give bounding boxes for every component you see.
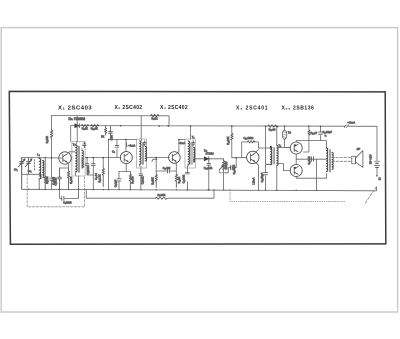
- VR wiper arrow: [219, 165, 223, 169]
- switch S contact dot: [376, 175, 378, 177]
- capacitor C16 10uF (rail bypass, x=320.6): [320, 126, 322, 140]
- svg-text:R₂10K: R₂10K: [45, 176, 49, 184]
- emitter wire X4 down to bus: [255, 162, 259, 190]
- svg-text:C₀.04: C₀.04: [94, 173, 98, 180]
- svg-text:R₇10K: R₇10K: [158, 193, 166, 197]
- capacitor C5b (x=93.3): [92, 158, 94, 190]
- T1 secondary to X2 base wire: [82, 149, 121, 169]
- dashed shield box (converter section): [27, 174, 84, 207]
- detector output wire: [209, 158, 224, 160]
- svg-text:C₅0.05: C₅0.05: [86, 166, 90, 174]
- svg-text:Th: Th: [288, 131, 292, 135]
- svg-text:≈9mA: ≈9mA: [348, 121, 356, 125]
- svg-text:C₁₀100: C₁₀100: [163, 167, 171, 170]
- T2 feed from line A: [140, 116, 142, 141]
- detector wire from T3 secondary: [194, 159, 205, 162]
- svg-text:C₁₅50μF: C₁₅50μF: [260, 172, 264, 182]
- transistor X5: [290, 142, 302, 154]
- svg-text:R₁10K: R₁10K: [46, 136, 49, 143]
- svg-text:C₁₁0.02: C₁₁0.02: [181, 174, 185, 183]
- junction dots on bus: [28, 189, 318, 192]
- current break ticks + mA label: [344, 125, 348, 128]
- svg-text:X₁ 2SC403: X₁ 2SC403: [58, 105, 92, 111]
- T1 core lines: [79, 146, 80, 173]
- collector wire X4 to T4: [255, 148, 271, 153]
- svg-text:C₁₇0.02: C₁₇0.02: [308, 156, 311, 165]
- X5 collector to OPT top: [296, 141, 326, 148]
- dotted line bottom middle: [230, 190, 345, 202]
- T5 core lines: [329, 150, 330, 173]
- T3 secondary coil: [194, 148, 195, 162]
- T4 secondary (on long vertical): [276, 126, 278, 190]
- emitter wire X1: [60, 162, 69, 168]
- junction dot: [78, 189, 80, 191]
- volume control VR 10K: [223, 159, 225, 160]
- X6 collector to OPT bottom: [296, 174, 326, 179]
- svg-text:R₈2K: R₈2K: [152, 117, 158, 121]
- svg-text:R₃100: R₃100: [69, 176, 73, 184]
- svg-text:X₅₆ 2SB136: X₅₆ 2SB136: [282, 105, 315, 111]
- capacitor C3 2000 bars: [62, 196, 64, 200]
- switch S lever: [365, 187, 377, 204]
- resistor R7 10K (series on AVC line): [156, 197, 168, 199]
- transistor X3: [169, 152, 181, 164]
- driver transformer T4 primary: [270, 147, 271, 165]
- T4 secondary taps to push-pull bases: [277, 148, 291, 171]
- resistor R4 1.5K (x=103.2): [102, 158, 104, 168]
- AVC line (lower): [86, 190, 214, 199]
- T5 secondary: [332, 153, 333, 170]
- collector lead X2: [125, 139, 127, 151]
- svg-text:C₃2000: C₃2000: [63, 201, 72, 204]
- AGC arrow on base wire: [152, 159, 157, 161]
- capacitor C8 1uF (x=119): [118, 172, 120, 190]
- svg-text:R₉1K: R₉1K: [82, 126, 88, 130]
- svg-text:X₄ 2SC401: X₄ 2SC401: [236, 105, 268, 111]
- diode D1: [75, 124, 80, 128]
- feedback resistor R14 400 (loop above X4): [242, 142, 259, 158]
- svg-text:1T23M: 1T23M: [206, 152, 214, 156]
- main rail line B: [71, 126, 377, 161]
- tuning common wire: [22, 174, 41, 189]
- transistor X4: [247, 151, 259, 163]
- resistor R11 (vertical under rail B at x=105.5): [105, 126, 107, 135]
- svg-text:T₃: T₃: [192, 135, 195, 139]
- AGC drop wire from line B: [70, 126, 72, 142]
- svg-text:X₂ 2SC402: X₂ 2SC402: [115, 105, 143, 111]
- svg-text:R₆10K: R₆10K: [150, 177, 154, 185]
- T2 secondary coil: [145, 147, 146, 161]
- T3 primary coil: [188, 141, 189, 164]
- svg-text:C₅0.05: C₅0.05: [54, 177, 58, 185]
- emitter join wire X5/X6: [295, 154, 297, 165]
- capacitor C5a (AGC filter, x=87.1): [87, 158, 93, 175]
- T2 resonating capacitor: [143, 141, 146, 146]
- T2 shield box: [137, 139, 147, 168]
- capacitor C9 0.02 (T2 bottom, x=140.9): [139, 174, 143, 184]
- svg-text:10K(B): 10K(B): [224, 162, 228, 170]
- svg-text:SP: SP: [357, 147, 361, 151]
- emitter bypass capacitor C10 100: [156, 170, 176, 172]
- svg-text:BP 4.5V: BP 4.5V: [369, 154, 373, 164]
- svg-text:5K: 5K: [101, 135, 104, 139]
- T3 core lines: [191, 143, 192, 165]
- svg-text:C₈1μF: C₈1μF: [113, 179, 117, 187]
- svg-text:Cᵛ₁: Cᵛ₁: [14, 167, 18, 171]
- svg-text:T₁: T₁: [73, 144, 76, 147]
- bias resistor R1 10K (vertical x=51.1): [51, 116, 53, 130]
- T1 secondary coil: [82, 151, 83, 169]
- svg-text:R₅470: R₅470: [131, 176, 135, 184]
- T4 primary bottom wire: [266, 163, 271, 165]
- wires T5 secondary to speaker: [332, 158, 352, 162]
- T1 primary coil: [76, 145, 78, 172]
- svg-text:1.5mA: 1.5mA: [252, 177, 255, 185]
- figure border box: [9, 91, 386, 244]
- collector lead X3: [177, 140, 185, 154]
- top base wire: [22, 157, 59, 160]
- base lead X1: [59, 157, 63, 159]
- collector wire X1 to T1: [68, 152, 75, 154]
- svg-text:T₅: T₅: [324, 135, 326, 137]
- T3 feed from rail B: [190, 126, 192, 139]
- svg-text:C₁₆10μF: C₁₆10μF: [322, 130, 332, 134]
- T3 resonating capacitor: [192, 141, 195, 146]
- bias resistor R16 (x=308.9): [308, 126, 310, 129]
- svg-text:C₆: C₆: [112, 149, 115, 153]
- svg-text:≈1mA: ≈1mA: [179, 141, 186, 145]
- transistor X2: [120, 152, 132, 164]
- T1 resonating capacitor: [83, 142, 86, 148]
- antenna coil L1 secondary: [43, 161, 44, 178]
- tuning: left vertical wire: [21, 158, 23, 190]
- decoupling capacitor C15 50uF (x=265.6): [266, 126, 271, 190]
- thermistor Th: [285, 126, 291, 147]
- T1 primary bottom to bus: [76, 172, 79, 190]
- svg-text:R₁₂50: R₁₂50: [177, 176, 181, 183]
- collector feed wire X2: [109, 138, 137, 140]
- tone capacitor C17 0.02 (across primary): [311, 157, 313, 162]
- resistor R8 2K (series on line A): [151, 114, 159, 117]
- emitter network X2: [119, 164, 130, 172]
- svg-text:≈1mA: ≈1mA: [129, 144, 136, 148]
- capacitor C4 0.04 (emitter bypass, x=59.5): [58, 168, 62, 189]
- svg-text:X₃ 2SC402: X₃ 2SC402: [160, 105, 188, 111]
- T3 primary bottom bypass capacitor C11 0.02: [186, 165, 189, 190]
- neutralizing capacitor C6 0.05 (x=117): [116, 139, 118, 157]
- wire L1 top to base wire: [38, 158, 40, 190]
- svg-text:C₉0.02: C₉0.02: [141, 176, 145, 184]
- output transformer T5 primary: [326, 148, 327, 171]
- capacitor C7 0.05 (vertical at x=110.5): [109, 126, 113, 140]
- series resistor R15 40 (on rail B): [268, 125, 278, 128]
- variable capacitor Cv1: [19, 158, 26, 175]
- antenna coil L1 primary: [39, 158, 41, 180]
- capacitor C4 0.04 (x=51.5 to bus): [50, 178, 54, 180]
- T3 shield box: [185, 139, 195, 168]
- svg-text:R₁₅40: R₁₅40: [269, 127, 276, 131]
- T2 secondary to X3 base: [147, 157, 170, 159]
- resistor R10 22K (series on line B): [91, 125, 99, 127]
- oscillator feedback loop with padder capacitor C3 2000: [60, 189, 79, 198]
- resistor R2 10K (vertical, x=45.2): [44, 158, 46, 177]
- transistor X1: [59, 152, 71, 164]
- resistor R5 470 (emitter X2): [129, 172, 131, 190]
- diode D2: [204, 157, 209, 161]
- svg-text:C₁₄400Ω: C₁₄400Ω: [244, 137, 254, 140]
- AGC feed wire (x=108.6): [108, 139, 110, 189]
- resistor R9 1K (series on line B): [81, 124, 88, 126]
- svg-text:R₁₃10K: R₁₃10K: [226, 136, 230, 145]
- gang link dashes: [34, 160, 36, 171]
- T4 core lines: [273, 148, 274, 165]
- supply line A (filtered rail, top left): [51, 116, 169, 127]
- speaker SP: [352, 151, 363, 168]
- main bottom bus: [22, 187, 377, 191]
- resistor R3 (emitter, x=68.5): [67, 168, 69, 189]
- svg-text:Cᵛ₂: Cᵛ₂: [28, 169, 32, 173]
- capacitor C12 0.01 (det filter, x=208): [208, 159, 210, 190]
- transistor X6: [290, 165, 302, 177]
- T2 primary coil: [140, 141, 141, 164]
- T1 feed from line A: [76, 116, 78, 145]
- emitter tap to bus: [296, 159, 326, 190]
- variable capacitor Cv2: [25, 158, 32, 175]
- T2 core lines: [142, 143, 143, 165]
- junction dots on rail B: [120, 125, 169, 127]
- svg-text:R₁₆17: R₁₆17: [311, 131, 318, 135]
- battery B: [374, 161, 379, 167]
- svg-text:T₄: T₄: [279, 144, 282, 148]
- coupling capacitor C13 10uF: [225, 158, 236, 173]
- T1 shield box: [72, 142, 85, 177]
- svg-text:D₁ IT23M: D₁ IT23M: [69, 116, 86, 121]
- T2 primary lower end wire: [140, 165, 141, 190]
- emitter resistor R12 50 (X3): [175, 161, 178, 174]
- svg-text:C₁₂0.01: C₁₂0.01: [204, 166, 213, 170]
- svg-text:R₁₀2K: R₁₀2K: [91, 126, 98, 130]
- svg-text:C₁₃10μF: C₁₃10μF: [232, 164, 236, 174]
- resistor R6 10K (x=156.2 base to bus): [155, 158, 157, 174]
- svg-text:L₁: L₁: [37, 153, 40, 157]
- svg-text:R₄1.5K: R₄1.5K: [98, 174, 102, 182]
- bias resistor R13 10K (x=231.8 from rail B): [231, 126, 233, 133]
- base wire to X4: [236, 157, 246, 159]
